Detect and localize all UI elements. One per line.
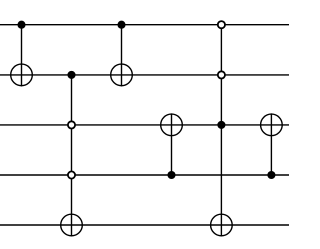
wire gate6 connector bbox=[270, 113, 272, 175]
wire gate1 connector bbox=[21, 25, 23, 87]
open control gate5 on q0 bbox=[218, 21, 225, 28]
Toffoli target gate2 on q4 bbox=[61, 214, 83, 236]
wire gate2 connector bbox=[71, 75, 73, 237]
wire q0 bbox=[0, 24, 289, 26]
wire q1 bbox=[0, 74, 289, 76]
control dot gate6 on q3 bbox=[267, 171, 275, 179]
wire gate4 connector bbox=[171, 113, 173, 175]
CNOT target gate6 on q2 bbox=[261, 114, 283, 136]
wire q3 bbox=[0, 174, 289, 176]
control dot gate2 on q1 bbox=[67, 71, 75, 79]
control dot gate4 on q3 bbox=[167, 171, 175, 179]
open control gate5 on q1 bbox=[218, 71, 225, 78]
control dot gate3 on q0 bbox=[117, 21, 125, 29]
CNOT target gate3 on q1 bbox=[111, 64, 133, 86]
wire gate3 connector bbox=[121, 25, 123, 87]
open control gate2 on q2 bbox=[68, 121, 75, 128]
Toffoli target gate5 on q4 bbox=[211, 214, 233, 236]
control dot gate1 on q0 bbox=[17, 21, 25, 29]
wire q2 bbox=[0, 124, 289, 126]
control dot gate5 on q2 bbox=[217, 121, 225, 129]
wire q4 bbox=[0, 224, 289, 226]
wire gate5 connector bbox=[220, 25, 222, 237]
CNOT target gate4 on q2 bbox=[161, 114, 183, 136]
open control gate2 on q3 bbox=[68, 171, 75, 178]
CNOT target gate1 on q1 bbox=[11, 64, 33, 86]
